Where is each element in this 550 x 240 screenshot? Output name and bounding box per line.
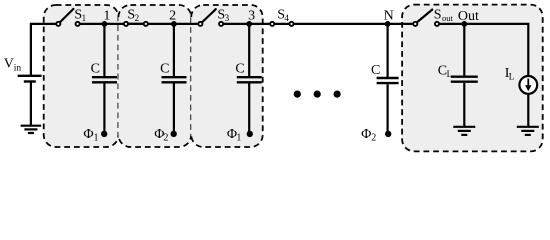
phase terminal PHI2 stage 2 — [171, 131, 177, 137]
switch Sout (open) arm — [417, 10, 433, 23]
voltage source Vin battery — [18, 76, 42, 125]
svg-text:C: C — [371, 63, 380, 78]
node Out junction dot — [461, 21, 467, 27]
svg-text:Φ: Φ — [83, 127, 93, 142]
svg-text:N: N — [384, 8, 394, 23]
output stage dashed box — [402, 5, 543, 152]
node N junction dot — [385, 21, 391, 27]
switch S3 (open) arm — [202, 9, 216, 22]
switch S1 (open) arm — [60, 9, 74, 23]
current source IL — [519, 76, 537, 126]
svg-text:S: S — [434, 8, 442, 23]
svg-text:C: C — [235, 62, 244, 77]
node 1 junction dot — [102, 21, 108, 27]
capacitor C stage 3 — [237, 24, 262, 133]
wire rail from S1 to S3 through S2 and nodes 1,2 — [80, 23, 198, 25]
svg-text:3: 3 — [248, 8, 255, 23]
switch S1 contact circles — [56, 22, 60, 26]
capacitor CL — [451, 24, 478, 126]
stage 3 dashed box — [191, 5, 263, 147]
ground below Vin — [21, 126, 42, 133]
phase terminal PHI1 stage 3 — [247, 131, 253, 137]
svg-text:3: 3 — [225, 13, 230, 23]
ellipsis dots — [294, 91, 341, 98]
svg-text:Φ: Φ — [361, 127, 371, 142]
svg-text:4: 4 — [284, 13, 289, 23]
capacitor C stage N — [377, 24, 399, 133]
svg-text:2: 2 — [169, 8, 176, 23]
svg-text:2: 2 — [163, 132, 168, 143]
switch S2 (closed) wire — [124, 23, 148, 25]
svg-text:out: out — [442, 13, 454, 23]
svg-text:1: 1 — [236, 132, 241, 143]
wire from Vin up to rail and to switch S1 — [31, 24, 56, 76]
ground below CL — [453, 127, 475, 135]
switch S3 contact circles — [198, 22, 202, 26]
svg-text:1: 1 — [94, 132, 99, 143]
wire rail from S3 to Sout through S4 and nodes 3,N — [223, 23, 413, 25]
wire rail from Sout to IL branch through node Out — [440, 24, 529, 76]
svg-text:1: 1 — [82, 13, 87, 23]
capacitor C stage 2 — [162, 24, 187, 133]
stage 1 dashed box — [44, 5, 119, 147]
capacitor C stage 1 — [92, 24, 117, 133]
svg-text:2: 2 — [135, 13, 140, 23]
phase terminal PHI2 stage N — [385, 131, 391, 137]
switch Sout contact circles — [413, 22, 417, 26]
svg-text:C: C — [91, 62, 100, 77]
node 2 junction dot — [171, 21, 177, 27]
node 3 junction dot — [246, 21, 252, 27]
svg-text:2: 2 — [371, 132, 376, 143]
phase terminal PHI1 stage 1 — [101, 131, 107, 137]
switch S2 contact circles — [124, 22, 128, 26]
stage 2 dashed box — [118, 5, 191, 147]
svg-text:L: L — [509, 72, 515, 82]
svg-text:in: in — [14, 64, 22, 74]
switch S4 (closed) contact circles — [270, 22, 274, 26]
svg-text:V: V — [4, 57, 14, 72]
svg-text:C: C — [160, 62, 169, 77]
svg-text:1: 1 — [103, 8, 110, 23]
svg-text:L: L — [447, 69, 453, 79]
ground below IL — [517, 127, 539, 135]
svg-text:Out: Out — [458, 9, 479, 24]
